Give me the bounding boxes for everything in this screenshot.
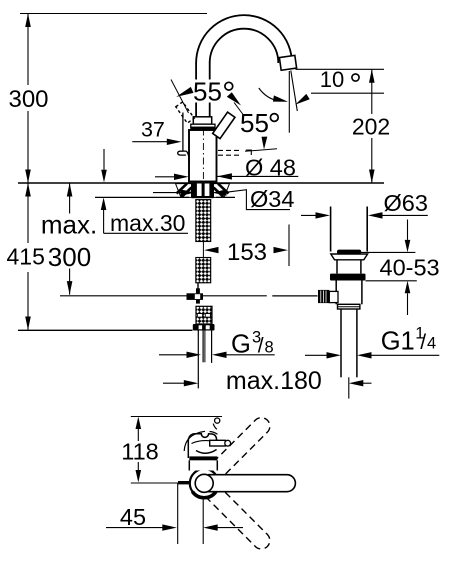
drain plug cap	[337, 250, 361, 254]
drain flange	[330, 274, 366, 281]
dimension diameter 48	[155, 155, 298, 181]
drain centerline extension	[348, 377, 350, 398]
flexible hoses	[197, 330, 199, 388]
top view: extension line top	[131, 416, 222, 418]
dimension diameter 63	[301, 190, 428, 219]
rod coupling	[187, 288, 204, 303]
dimension 415	[7, 183, 45, 330]
extension line spout top	[20, 13, 207, 15]
dimension G1 1/4	[305, 325, 439, 359]
svg-text:8: 8	[265, 339, 274, 357]
dimension 45	[106, 484, 243, 545]
top view: lever solid	[208, 475, 295, 492]
pop-up drain upper tube	[330, 207, 332, 252]
drain body	[335, 281, 337, 305]
rod gap centerline	[202, 242, 204, 258]
dimension 202 (spout outlet height)	[352, 69, 390, 183]
extension line aerator right	[296, 68, 385, 70]
svg-text:37: 37	[141, 118, 165, 142]
dimension max.180	[163, 367, 372, 395]
top view: body bowl arc	[196, 450, 217, 454]
dimension max.30	[101, 149, 188, 236]
top view: dashed lever up-right	[205, 414, 273, 482]
svg-text:Ø34: Ø34	[250, 186, 294, 212]
horizontal pop-up rod	[60, 295, 187, 297]
svg-text:45: 45	[120, 504, 146, 530]
top view: aerator tip circle	[215, 418, 220, 423]
threaded shank segment 1	[196, 200, 211, 242]
svg-text:55: 55	[193, 77, 222, 107]
dimension max.300	[41, 183, 97, 295]
top view: spout swivel arc	[184, 431, 205, 451]
countertop deck line	[18, 182, 384, 184]
water stream lines	[288, 71, 290, 133]
top view: aerator cylinder	[210, 440, 226, 446]
top view: spout inner tube arc	[192, 441, 213, 444]
svg-text:55: 55	[240, 108, 269, 138]
pop-up rod stem	[182, 113, 184, 152]
washer hatched left	[176, 184, 192, 198]
svg-text:118: 118	[121, 439, 158, 465]
dimension 37	[132, 118, 181, 146]
dimension diameter 34	[153, 186, 294, 212]
lever handle solid (right 55)	[213, 112, 235, 138]
top view: dashed lever down-right	[205, 484, 273, 552]
pop-up rod knob at body left	[178, 151, 187, 155]
svg-text:G1: G1	[381, 328, 415, 356]
top view: body dark band	[189, 456, 217, 460]
lever handle dashed (left 55)	[176, 102, 194, 123]
svg-text:4: 4	[427, 335, 436, 353]
cartridge cap	[193, 117, 211, 124]
faucet body	[189, 130, 217, 182]
angle 55 degrees no.2	[240, 108, 278, 151]
top view: escutcheon ring	[190, 469, 219, 498]
black joint strip	[190, 127, 215, 130]
top view: spout outline	[188, 434, 216, 458]
drain tailpipe	[340, 309, 342, 377]
drain neck trapezoid	[331, 254, 368, 260]
svg-text:max.30: max.30	[110, 210, 185, 236]
bottom reference line	[18, 329, 193, 331]
leader line right lever	[227, 92, 244, 115]
dimension G 3/8	[159, 329, 275, 359]
deck underside line right	[216, 196, 235, 198]
svg-text:/: /	[420, 331, 426, 354]
drain collar	[338, 304, 360, 309]
svg-text:max.180: max.180	[226, 367, 322, 395]
svg-text:G: G	[231, 331, 251, 359]
leader line left lever	[171, 80, 189, 114]
svg-text:153: 153	[227, 239, 267, 266]
top view: pop-up rod tab	[178, 481, 190, 484]
drain rod fitting	[329, 291, 338, 302]
body centerline	[202, 129, 204, 181]
top view: body sides	[189, 460, 217, 470]
svg-text:10: 10	[320, 67, 344, 92]
svg-text:202: 202	[352, 114, 390, 140]
svg-text:300: 300	[48, 242, 91, 272]
svg-text:max.: max.	[41, 210, 97, 240]
svg-text:Ø63: Ø63	[384, 190, 428, 216]
hose connector nuts	[196, 306, 212, 324]
svg-text:415: 415	[7, 244, 45, 270]
hidden dashed lines right of body	[218, 149, 240, 151]
deck underside line left	[95, 196, 189, 198]
locknut block	[192, 184, 214, 199]
dimension 40-53	[345, 220, 440, 316]
dimension 118	[121, 417, 158, 483]
svg-text:40-53: 40-53	[380, 255, 440, 281]
rod below shank	[197, 283, 199, 294]
dimension 153 (spout reach)	[204, 225, 289, 267]
svg-text:Ø 48: Ø 48	[245, 155, 296, 181]
threaded shank segment 2	[196, 258, 211, 283]
svg-text:/: /	[258, 335, 264, 358]
svg-text:300: 300	[8, 86, 48, 113]
top view: lever boss	[195, 474, 213, 492]
faucet spout arc	[196, 15, 292, 117]
dimension 300 (spout height)	[8, 14, 48, 184]
top view: extension line lever axis	[131, 482, 188, 484]
angle 55 degrees no.1	[176, 77, 241, 107]
washer hatched right	[214, 184, 230, 198]
drain neck	[336, 260, 338, 274]
drain rod knob	[318, 290, 329, 303]
hose collar band	[193, 324, 215, 331]
angle 10 degrees annotation	[259, 67, 384, 105]
aerator spout tip	[279, 55, 296, 70]
